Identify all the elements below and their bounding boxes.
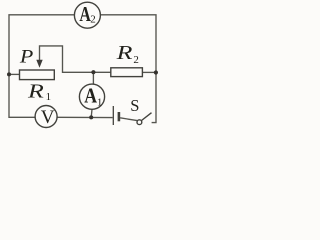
svg-text:A: A xyxy=(84,84,97,108)
svg-text:1: 1 xyxy=(46,91,52,103)
svg-text:P: P xyxy=(19,47,34,68)
svg-text:R: R xyxy=(115,42,132,64)
svg-text:R: R xyxy=(27,81,44,103)
svg-text:2: 2 xyxy=(90,14,96,26)
svg-text:1: 1 xyxy=(97,96,103,108)
svg-text:V: V xyxy=(41,107,55,128)
svg-text:2: 2 xyxy=(133,54,139,66)
svg-text:S: S xyxy=(130,96,139,115)
